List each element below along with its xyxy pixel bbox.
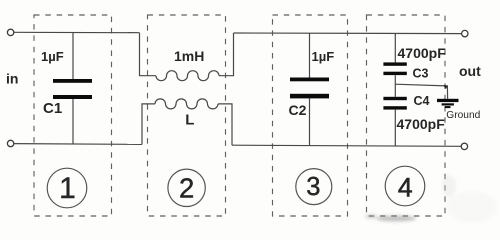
wire bottom step up [142, 104, 155, 144]
section box 1 (dashed) [34, 15, 112, 216]
wire bottom step down [218, 104, 232, 145]
wire top step down [140, 33, 157, 76]
capacitor C1 stem top [72, 33, 74, 79]
input terminal bottom [7, 140, 13, 146]
svg-text:1: 1 [59, 172, 76, 205]
svg-text:C4: C4 [414, 94, 430, 108]
capacitor C2 plates [290, 78, 329, 82]
svg-text:Ground: Ground [446, 110, 480, 121]
section box 4 (dashed) [367, 15, 446, 216]
svg-text:C2: C2 [289, 102, 307, 118]
input terminal top [7, 29, 13, 35]
svg-text:2: 2 [179, 172, 194, 203]
inductor L top winding 1mH [156, 71, 219, 81]
capacitor C3 plates [383, 62, 406, 65]
output terminal top [462, 30, 468, 36]
section box 2 (dashed) [148, 15, 226, 216]
capacitor C1 stem bottom [72, 99, 74, 144]
svg-text:4: 4 [398, 173, 413, 203]
ground symbol [437, 99, 459, 102]
svg-text:1µF: 1µF [41, 49, 64, 64]
svg-text:L: L [185, 112, 194, 129]
svg-text:C3: C3 [413, 67, 429, 81]
svg-text:1mH: 1mH [174, 48, 204, 64]
output terminal bottom [461, 143, 467, 149]
section number 1 [47, 168, 87, 208]
capacitor C4 stem bottom [394, 110, 396, 146]
inductor L bottom winding [155, 99, 218, 109]
ground stem [446, 86, 448, 99]
ground arrow [443, 85, 448, 89]
section box 3 (dashed) [273, 15, 348, 216]
capacitor C1 plates [53, 79, 92, 83]
section number 4 [385, 166, 425, 206]
svg-text:in: in [6, 71, 18, 87]
svg-text:3: 3 [306, 173, 320, 201]
wire junction to ground [395, 84, 446, 86]
capacitor C4 plates [383, 97, 406, 100]
svg-text:4700pF: 4700pF [398, 45, 447, 61]
wire top step up [219, 33, 234, 76]
svg-text:C1: C1 [43, 100, 62, 117]
capacitor C2 stem top [309, 33, 311, 77]
wire C3-C4 middle stem [394, 75, 396, 97]
wire bottom rail left [14, 143, 142, 146]
svg-text:out: out [459, 63, 481, 79]
wire bottom rail right [232, 145, 461, 146]
capacitor C3 stem top [394, 33, 396, 62]
capacitor C2 stem bottom [309, 98, 311, 145]
svg-text:4700pF: 4700pF [397, 116, 446, 132]
section number 3 [296, 169, 332, 205]
wire top rail left [14, 31, 140, 33]
wire top rail right [234, 32, 462, 35]
section number 2 [168, 169, 205, 206]
svg-text:1µF: 1µF [312, 49, 335, 64]
